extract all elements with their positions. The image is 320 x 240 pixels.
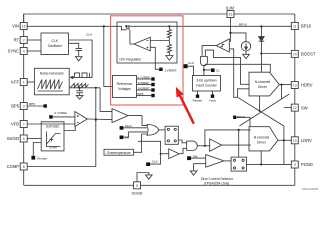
svg-text:SYNC: SYNC xyxy=(8,49,19,54)
svg-text:Overtemperature: Overtemperature xyxy=(107,151,131,155)
PWM comparator xyxy=(112,109,128,123)
svg-text:VFB: VFB xyxy=(11,122,19,127)
wire CLK tag to fault counter xyxy=(188,66,194,75)
net CLK tag at fault counter xyxy=(184,64,188,68)
wire ILIM pin down to comparator xyxy=(230,18,232,42)
sawtooth glyph on ramp output wire xyxy=(71,83,89,87)
ground under regulator divider xyxy=(166,56,173,61)
pin COMP 8 xyxy=(20,163,27,170)
svg-text:10: 10 xyxy=(293,139,297,143)
latch2 box xyxy=(231,157,246,171)
svg-text:COMP: COMP xyxy=(7,164,20,169)
node error amp output xyxy=(95,119,97,121)
svg-text:Restart: Restart xyxy=(37,156,47,160)
driver buffer triangle xyxy=(210,139,222,151)
node LDRV output xyxy=(283,139,285,141)
wire VFB to error amp xyxy=(27,123,75,125)
wire SW sense diagonal A xyxy=(238,97,284,126)
svg-text:BP5: BP5 xyxy=(138,92,144,96)
high-side N-channel driver box xyxy=(249,72,279,96)
wire diode node to BOOST pin xyxy=(261,53,291,55)
svg-text:0.7VREF: 0.7VREF xyxy=(55,111,68,115)
resistor R1 in regulator divider xyxy=(167,29,171,41)
arrowhead clock into ramp generator xyxy=(70,76,74,79)
svg-text:4: 4 xyxy=(23,50,25,54)
node boost diode cathode xyxy=(260,52,262,54)
wire CL tag to OR gate xyxy=(123,132,147,137)
pin BOOST 14 xyxy=(291,50,298,57)
svg-text:Ramp Generator: Ramp Generator xyxy=(40,72,65,76)
wire BP10 tag to low-side driver xyxy=(236,117,250,126)
net CL tag at NAND xyxy=(211,68,215,72)
svg-text:SW: SW xyxy=(301,105,308,110)
node VIN rail to reference feed xyxy=(103,25,105,27)
wire SYNC to oscillator xyxy=(27,50,41,52)
wire buffer2 output to low-side driver xyxy=(222,144,251,146)
wire IC right border xyxy=(294,14,296,185)
net Restart tag at soft start xyxy=(31,156,35,160)
wire ILIM comparator output to NAND xyxy=(202,46,216,57)
svg-text:Reference: Reference xyxy=(117,82,133,86)
svg-text:BP10: BP10 xyxy=(239,23,247,27)
wire BP10 rail from VIN pin to BP10 pin xyxy=(27,25,291,27)
svg-text:CL: CL xyxy=(216,69,220,73)
wire IC left border xyxy=(23,14,25,185)
low-side N-channel driver box xyxy=(249,127,278,151)
svg-text:15: 15 xyxy=(22,25,26,29)
wire BP5 pin to net tag xyxy=(27,105,43,107)
pin ILIM 16 xyxy=(227,11,234,18)
wire COMP to error amp output node xyxy=(27,88,96,167)
wire reference output 1V5REF xyxy=(137,84,152,86)
annotation red rectangle xyxy=(111,16,183,105)
svg-text:KFF: KFF xyxy=(11,80,19,85)
wire diagonal B xyxy=(239,94,289,126)
wire IC top border / VIN rail xyxy=(24,14,295,26)
node clock buffer tap xyxy=(160,153,162,155)
svg-text:0.7VREF: 0.7VREF xyxy=(138,75,151,79)
svg-text:SS/SD: SS/SD xyxy=(7,136,19,141)
pin SW 12 xyxy=(291,104,298,111)
capacitor under ramp output xyxy=(76,91,83,96)
svg-text:SGND: SGND xyxy=(132,192,143,196)
wire reference output 3V5REF xyxy=(137,89,152,91)
wire AND gate output to drivers xyxy=(197,145,209,147)
pin SGND 5 xyxy=(134,182,141,189)
ground under oscillator capacitor xyxy=(75,57,82,62)
OR gate U3 fault logic xyxy=(147,125,159,136)
wire PWM comparator output to fault OR gate xyxy=(128,116,147,126)
fault counter box xyxy=(193,76,221,92)
pin labels xyxy=(7,24,20,170)
wire ILIM node to current source xyxy=(231,33,247,42)
wire comparator to latch2 xyxy=(224,160,231,162)
ILIM comparator xyxy=(216,39,229,52)
annotation red arrow xyxy=(176,87,195,124)
net 0.7VREF tag (reference block) xyxy=(151,77,154,80)
node PGND join xyxy=(260,163,262,165)
svg-text:13: 13 xyxy=(293,84,297,88)
ground under current source xyxy=(243,54,250,58)
wire SW tag to zero current comparator xyxy=(191,157,206,159)
transistor pass FET in 10V regulator xyxy=(122,26,134,44)
wire comparator reference input to ground xyxy=(194,164,206,171)
wire LDRV node down to PGND xyxy=(283,126,285,164)
wire SW pin stub xyxy=(284,107,291,109)
10V regulator box xyxy=(117,22,177,63)
svg-text:Driver: Driver xyxy=(257,140,267,144)
svg-text:Fault: Fault xyxy=(125,124,132,128)
net BP5 tag at pin xyxy=(44,104,47,107)
wire comparator sense input down to SW network xyxy=(229,49,237,97)
wire ramp output branch to filter capacitor xyxy=(79,88,81,91)
net BP10 tag at low-side driver xyxy=(233,116,236,119)
wire SW sense up to driver input xyxy=(238,89,249,98)
svg-text:9: 9 xyxy=(294,163,296,167)
svg-text:Fault Counter: Fault Counter xyxy=(196,84,217,88)
wire VIN rail down to reference voltages block xyxy=(104,26,113,86)
svg-text:BP5: BP5 xyxy=(29,102,35,106)
node gate dot on pass FET xyxy=(125,25,127,27)
wire driver output to LDRV pin xyxy=(278,139,291,141)
pin SYNC 4 xyxy=(20,48,27,55)
wire supply to high-side driver xyxy=(205,64,271,72)
wire RT to oscillator xyxy=(27,39,41,41)
wire reference output 0.7VREF xyxy=(137,78,152,80)
pin BP10 11 xyxy=(291,23,298,30)
overtemperature box xyxy=(104,149,134,155)
svg-text:7: 7 xyxy=(23,123,25,127)
wire overtemperature to OR gate xyxy=(134,134,148,152)
svg-text:CL: CL xyxy=(125,135,129,139)
svg-text:6: 6 xyxy=(23,137,25,141)
wire CLK tag to clock buffer xyxy=(138,141,161,164)
svg-text:12: 12 xyxy=(293,106,297,110)
wire NAND input 2 routing xyxy=(205,50,249,84)
NAND gate pointing down xyxy=(200,57,207,66)
net 3V5REF tag (reference block) xyxy=(151,88,154,91)
sawtooth waveform inside ramp generator xyxy=(38,80,64,92)
svg-text:5: 5 xyxy=(136,184,138,188)
svg-text:Restart: Restart xyxy=(193,99,203,103)
wire current source to ground xyxy=(245,51,247,54)
op-amp U1 in 10V regulator xyxy=(134,37,150,51)
node AND output xyxy=(204,145,206,147)
error amp U2 xyxy=(75,112,87,127)
AND gate U4 xyxy=(187,141,198,150)
node HDRV output xyxy=(280,84,282,86)
svg-text:CLK: CLK xyxy=(51,39,58,43)
svg-text:11: 11 xyxy=(293,25,297,29)
pin HDRV 13 xyxy=(291,82,298,89)
svg-text:1V5REF: 1V5REF xyxy=(165,68,177,72)
reference voltages box xyxy=(113,76,137,98)
node ramp capacitor tap xyxy=(79,87,81,89)
wire soft start to error amp xyxy=(64,126,75,130)
svg-text:CLK: CLK xyxy=(188,61,195,65)
wire error amp output to PWM comparator xyxy=(87,118,112,121)
svg-text:Oscillator: Oscillator xyxy=(48,44,63,48)
node comp feedback tap xyxy=(95,87,97,89)
diode from BP10 rail xyxy=(260,26,262,36)
wire SGND pin to internal ground xyxy=(137,173,149,182)
wire PGND line to PGND pin xyxy=(261,163,291,165)
wire driver source down to SW sense xyxy=(259,96,261,111)
svg-text:ILIM: ILIM xyxy=(226,5,235,10)
svg-text:2: 2 xyxy=(23,39,25,43)
net Restart tag under counter xyxy=(196,95,199,98)
svg-text:Soft Start: Soft Start xyxy=(46,125,59,129)
wire ramp output down to PWM comparator xyxy=(100,88,112,112)
svg-text:Driver: Driver xyxy=(258,85,268,89)
svg-text:3V5REF: 3V5REF xyxy=(138,86,150,90)
latch bubbles xyxy=(167,128,169,130)
wire op-amp lower input to 1V5REF tag xyxy=(150,47,159,69)
ground symbol SGND xyxy=(145,175,152,179)
clock buffer triangle xyxy=(169,149,180,159)
svg-text:HDRV: HDRV xyxy=(301,83,313,88)
svg-text:START: START xyxy=(49,145,58,149)
svg-text:VIN: VIN xyxy=(12,24,19,29)
latch2 bubbles xyxy=(233,159,235,161)
svg-text:Voltages: Voltages xyxy=(118,87,131,91)
net CLK tag at clock buffer xyxy=(146,162,150,166)
small net labels xyxy=(29,23,247,164)
svg-text:CLK: CLK xyxy=(86,32,93,36)
pin SS/SD 6 xyxy=(20,135,27,142)
wire HDRV node down to SW network xyxy=(281,85,283,99)
pin LDRV 10 xyxy=(291,137,298,144)
node divider top xyxy=(168,25,170,27)
wire oscillator CLK output to ramp generator clock input xyxy=(69,40,93,77)
block and net labels xyxy=(48,39,271,145)
svg-text:BOOST: BOOST xyxy=(301,52,316,57)
wire OR gate to PWM latch xyxy=(159,129,165,131)
svg-text:BP10: BP10 xyxy=(237,115,245,119)
current source circle xyxy=(241,42,250,51)
pin boxes xyxy=(20,11,298,189)
wire driver output to HDRV pin xyxy=(279,84,291,86)
svg-text:10V Regulator: 10V Regulator xyxy=(119,58,142,62)
pin RT 2 xyxy=(20,37,27,44)
wire reference output BP5 xyxy=(137,95,152,97)
svg-text:3-bit up/down: 3-bit up/down xyxy=(196,79,216,83)
svg-text:N-channel: N-channel xyxy=(255,80,271,84)
node NAND output xyxy=(203,69,205,71)
svg-text:1: 1 xyxy=(23,81,25,85)
wire KFF to ramp generator xyxy=(27,81,34,83)
pin KFF 1 xyxy=(20,79,27,86)
PWM latch box xyxy=(165,126,178,144)
node diode anode xyxy=(260,25,262,27)
ramp generator box xyxy=(34,68,69,95)
svg-text:LDRV: LDRV xyxy=(301,138,312,143)
net 1V5REF tag (reference block) xyxy=(151,83,154,86)
pin VIN 15 xyxy=(20,23,27,30)
svg-text:3: 3 xyxy=(23,105,25,109)
wire oscillator output to timing capacitor xyxy=(69,43,79,48)
current source arrow xyxy=(245,43,247,48)
svg-text:BP5: BP5 xyxy=(11,104,19,109)
wire divider mid node to op-amp input xyxy=(150,40,169,42)
wire Fault tag to OR gate xyxy=(123,127,147,129)
net Fault tag under counter xyxy=(211,95,214,98)
wire 0.7VREF tag to error amp xyxy=(53,116,75,118)
svg-text:RT: RT xyxy=(14,38,20,43)
waveform clock pulses glyph xyxy=(75,73,90,78)
zero current comparator xyxy=(206,155,224,168)
wire NAND output to CL tag and counter xyxy=(204,66,211,76)
pin VFB 7 xyxy=(20,121,27,128)
hysteresis glyph xyxy=(220,44,224,46)
svg-text:SW: SW xyxy=(193,155,198,159)
net 1V5REF tag xyxy=(159,68,162,71)
wire buffer to AND gate xyxy=(179,148,187,153)
wire AND output up and right to low-side driver xyxy=(205,130,251,146)
wire latch output to AND gate xyxy=(178,140,186,143)
svg-text:1V5REF: 1V5REF xyxy=(138,81,150,85)
wire counter to Fault tag xyxy=(212,91,214,95)
svg-text:BP10: BP10 xyxy=(301,24,312,29)
net SW tag at zero current comparator xyxy=(187,156,191,160)
pin PGND 9 xyxy=(291,161,298,168)
soft start ramp glyph xyxy=(47,132,61,147)
wire IC bottom border xyxy=(24,184,295,186)
wire counter to Restart tag xyxy=(197,91,199,95)
wire latch2 to PGND line xyxy=(247,163,262,165)
wire ramp generator output xyxy=(69,87,100,89)
node driver source SW xyxy=(259,110,261,112)
wire branch down to latch2 xyxy=(238,130,240,157)
resistor R2 in regulator divider xyxy=(167,41,171,56)
pin BP5 3 xyxy=(20,103,27,110)
net tag squares xyxy=(31,64,236,166)
svg-text:16: 16 xyxy=(229,13,233,17)
ground under zero current comparator xyxy=(190,171,197,175)
node latch2 feed xyxy=(238,129,240,131)
capacitor under oscillator xyxy=(76,48,82,56)
svg-text:14: 14 xyxy=(293,53,297,57)
svg-text:Zero Current Detector: Zero Current Detector xyxy=(201,177,234,181)
soft start box xyxy=(41,122,64,151)
net 0.7VREF tag at error amp xyxy=(49,115,52,118)
node ILIM branch xyxy=(229,32,231,34)
wire clock into buffer xyxy=(161,153,169,155)
svg-text:Fault: Fault xyxy=(209,99,216,103)
net CL tag at OR gate xyxy=(120,136,124,140)
svg-text:(TPS40054 Only): (TPS40054 Only) xyxy=(204,181,229,185)
net BP5 tag (reference block) xyxy=(151,94,154,97)
svg-text:8: 8 xyxy=(23,165,25,169)
ground under ramp capacitor xyxy=(76,95,83,99)
svg-text:PGND: PGND xyxy=(301,162,313,167)
svg-text:CLK: CLK xyxy=(152,159,159,163)
svg-text:UDG-02155: UDG-02155 xyxy=(302,187,318,191)
svg-text:N-channel: N-channel xyxy=(254,135,270,139)
wire resistor divider top from rail xyxy=(168,26,170,29)
wire restart tag to soft start box xyxy=(33,143,41,156)
oscillator box CLK Oscillator xyxy=(41,33,69,55)
wire SS/SD to soft start xyxy=(27,138,41,140)
net Fault tag at OR gate xyxy=(120,126,124,130)
wire driver2 source to PGND line xyxy=(260,151,262,165)
